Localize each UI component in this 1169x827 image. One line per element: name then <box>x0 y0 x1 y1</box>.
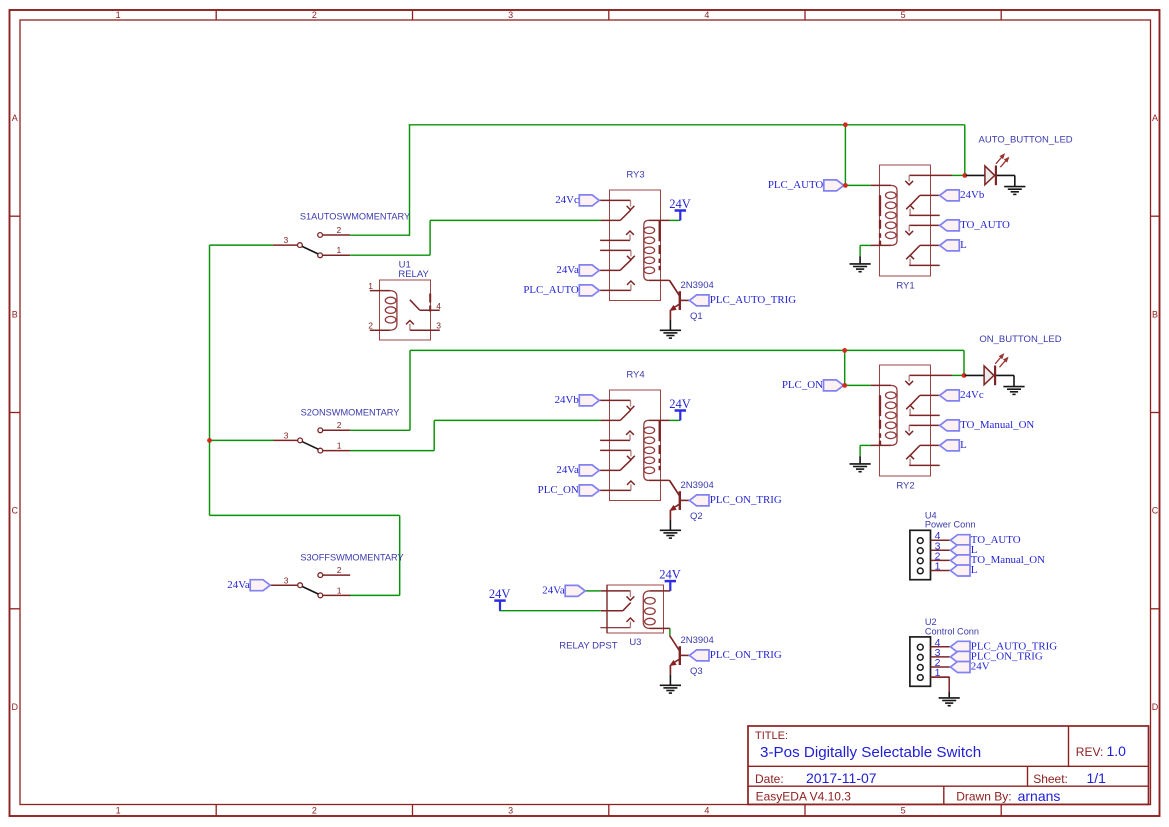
svg-text:Q2: Q2 <box>690 511 703 522</box>
junction ON rail / PLC_ON <box>842 348 847 353</box>
net flag 24Va <box>556 464 599 476</box>
transistor Q3 2N3904 <box>670 635 690 685</box>
svg-text:Date:: Date: <box>755 772 784 786</box>
wire 24V rail top (S1.2 to LED junction) <box>350 125 965 236</box>
svg-text:TITLE:: TITLE: <box>755 730 788 742</box>
net flag L <box>950 564 977 576</box>
wire U3 coil to Q3 collector <box>669 628 671 635</box>
net flag PLC_ON_TRIG <box>950 651 1043 663</box>
LED ON_BUTTON_LED <box>965 354 1014 386</box>
ground at U2 pin 1 <box>939 698 960 706</box>
net flag L <box>940 439 967 451</box>
svg-text:Sheet:: Sheet: <box>1033 772 1068 786</box>
net flag 24Va <box>227 579 270 591</box>
connector U4 Power Conn <box>910 530 950 580</box>
net flag 24Va <box>542 585 585 597</box>
svg-text:2: 2 <box>312 10 317 20</box>
svg-text:S1AUTOSWMOMENTARY: S1AUTOSWMOMENTARY <box>300 212 410 222</box>
net flag 24V <box>950 661 989 673</box>
svg-text:5: 5 <box>901 806 906 816</box>
svg-text:2: 2 <box>312 806 317 816</box>
svg-text:5: 5 <box>901 10 906 20</box>
svg-text:S3OFFSWMOMENTARY: S3OFFSWMOMENTARY <box>300 553 403 563</box>
ground at AUTO_BUTTON_LED <box>1004 187 1025 195</box>
svg-text:2: 2 <box>337 565 342 575</box>
ground at ON_BUTTON_LED <box>1003 387 1024 395</box>
svg-text:arnans: arnans <box>1018 788 1061 804</box>
wire RY2 pin to LED junction <box>952 374 964 376</box>
net flag PLC_ON <box>782 379 844 391</box>
relay RY4 <box>599 390 669 501</box>
svg-text:1/1: 1/1 <box>1087 770 1107 786</box>
net flag TO_AUTO <box>950 534 1020 546</box>
svg-text:TO_AUTO: TO_AUTO <box>960 219 1010 231</box>
svg-text:24V: 24V <box>669 197 691 211</box>
svg-text:24Va: 24Va <box>556 464 579 476</box>
relay RY3 <box>599 190 669 301</box>
wire S1.3 / S2.3 / S3.1 net <box>210 245 400 595</box>
svg-text:24Va: 24Va <box>556 264 579 276</box>
wire 24Va flag to U3 <box>585 590 601 592</box>
net flag PLC_AUTO <box>523 284 599 296</box>
transistor Q2 2N3904 <box>670 480 690 530</box>
svg-text:2N3904: 2N3904 <box>681 480 714 491</box>
wire RY3 coil to 24V <box>670 219 681 221</box>
ground at Q2 emitter <box>660 530 681 538</box>
wire RY3 coil to Q1 collector <box>669 280 679 296</box>
net flag 24Va <box>556 264 599 276</box>
svg-text:L: L <box>971 564 978 576</box>
wire RY1 pin to LED junction <box>952 174 965 176</box>
svg-text:3-Pos Digitally Selectable Swi: 3-Pos Digitally Selectable Switch <box>760 744 981 761</box>
wire ON rail (S2.2 to LED junction) <box>350 350 964 430</box>
svg-text:D: D <box>11 702 18 712</box>
svg-text:AUTO_BUTTON_LED: AUTO_BUTTON_LED <box>979 135 1073 146</box>
svg-text:PLC_AUTO_TRIG: PLC_AUTO_TRIG <box>710 294 796 306</box>
net flag 24Vc <box>555 194 599 206</box>
svg-text:A: A <box>12 113 18 123</box>
svg-text:24V: 24V <box>971 661 990 673</box>
svg-text:2N3904: 2N3904 <box>681 280 714 291</box>
svg-text:1: 1 <box>116 10 121 20</box>
wire stub S3 pin 3 <box>270 584 298 586</box>
junction LED node ON <box>962 373 967 378</box>
svg-text:24Vb: 24Vb <box>555 394 580 406</box>
svg-text:PLC_AUTO: PLC_AUTO <box>523 284 579 296</box>
switch S3OFFSWMOMENTARY <box>284 565 350 598</box>
svg-text:Power Conn: Power Conn <box>925 520 976 530</box>
net flag PLC_ON_TRIG <box>689 649 782 661</box>
svg-text:PLC_AUTO: PLC_AUTO <box>768 179 824 191</box>
svg-text:2N3904: 2N3904 <box>681 635 714 646</box>
svg-text:B: B <box>1152 309 1158 319</box>
wire U3 24V to coil common <box>499 610 601 612</box>
wire U3 pin to 24V (top) <box>664 590 671 592</box>
svg-text:PLC_ON_TRIG: PLC_ON_TRIG <box>710 494 782 506</box>
ground at RY1 coil <box>850 264 871 272</box>
svg-text:PLC_ON: PLC_ON <box>538 484 579 496</box>
net flag PLC_ON_TRIG <box>689 494 782 506</box>
svg-text:A: A <box>1152 113 1158 123</box>
svg-text:3: 3 <box>436 321 441 331</box>
wire RY4 coil to 24V <box>670 419 681 421</box>
frame column labels <box>116 10 906 816</box>
wire S2.1 to RY4 common <box>350 420 601 450</box>
wire stub S2 pin 3 <box>273 439 297 441</box>
switch S1AUTOSWMOMENTARY <box>284 225 350 258</box>
svg-text:U3: U3 <box>629 637 641 648</box>
LED AUTO_BUTTON_LED <box>966 154 1015 186</box>
svg-text:C: C <box>11 506 18 516</box>
svg-text:L: L <box>960 239 967 251</box>
svg-text:24Vc: 24Vc <box>960 389 984 401</box>
junction LED node AUTO <box>962 173 967 178</box>
svg-text:Drawn By:: Drawn By: <box>956 790 1011 804</box>
net flag 24Vc <box>940 389 984 401</box>
wire RY4 coil to Q2 collector <box>669 480 679 496</box>
transistor Q1 2N3904 <box>670 280 690 330</box>
svg-text:RY1: RY1 <box>896 281 914 292</box>
relay U1 RELAY <box>368 280 441 340</box>
svg-text:RY3: RY3 <box>626 170 644 181</box>
svg-text:24V: 24V <box>489 587 511 601</box>
net flag L <box>950 544 977 556</box>
svg-text:RY4: RY4 <box>626 370 644 381</box>
wire RY2 coil to ground <box>860 445 871 456</box>
net flag 24Vb <box>940 189 985 201</box>
svg-text:REV:: REV: <box>1076 745 1104 759</box>
wire RY1 coil ground stem <box>859 256 861 263</box>
svg-text:1: 1 <box>337 245 342 255</box>
net flag TO_Manual_ON <box>940 419 1035 431</box>
frame row labels <box>11 113 1158 712</box>
svg-text:TO_AUTO: TO_AUTO <box>971 534 1021 546</box>
svg-text:PLC_ON_TRIG: PLC_ON_TRIG <box>710 649 782 661</box>
connector U2 Control Conn <box>910 637 950 687</box>
svg-text:2: 2 <box>337 420 342 430</box>
ground at Q1 emitter <box>660 330 681 338</box>
svg-text:1: 1 <box>368 281 373 291</box>
svg-text:Control Conn: Control Conn <box>925 626 979 636</box>
svg-text:24V: 24V <box>669 397 691 411</box>
junction PLC_ON node <box>842 383 847 388</box>
svg-text:ON_BUTTON_LED: ON_BUTTON_LED <box>979 334 1061 345</box>
svg-text:B: B <box>12 309 18 319</box>
svg-text:1.0: 1.0 <box>1107 743 1127 759</box>
net flag PLC_ON <box>538 484 600 496</box>
relay RY1 <box>871 165 952 276</box>
svg-text:RELAY DPST: RELAY DPST <box>559 641 617 652</box>
svg-text:RY2: RY2 <box>896 481 914 492</box>
power flag 24V <box>669 397 691 421</box>
net flag L <box>940 239 967 251</box>
svg-text:4: 4 <box>704 806 709 816</box>
svg-text:24Va: 24Va <box>542 585 565 597</box>
svg-text:4: 4 <box>436 301 441 311</box>
svg-text:2017-11-07: 2017-11-07 <box>806 770 877 786</box>
wire stub S1 pin 3 <box>273 244 298 246</box>
wire U3 to Q3 collector <box>664 627 670 629</box>
wire RY1 coil to ground <box>860 245 871 256</box>
relay U3 RELAY DPST <box>600 585 663 633</box>
svg-text:D: D <box>1152 702 1159 712</box>
wire rail to PLC_AUTO node <box>845 125 870 186</box>
svg-text:3: 3 <box>284 575 289 585</box>
switch S2ONSWMOMENTARY <box>284 420 350 453</box>
svg-text:TO_Manual_ON: TO_Manual_ON <box>960 419 1034 431</box>
wire rail to PLC_ON node <box>845 350 871 385</box>
svg-text:24Va: 24Va <box>227 579 250 591</box>
net flag 24Vb <box>555 394 600 406</box>
svg-text:1: 1 <box>337 585 342 595</box>
net flag PLC_AUTO <box>768 179 844 191</box>
svg-text:EasyEDA V4.10.3: EasyEDA V4.10.3 <box>756 790 852 804</box>
net flag PLC_AUTO_TRIG <box>950 640 1057 652</box>
svg-text:TO_Manual_ON: TO_Manual_ON <box>971 554 1045 566</box>
svg-text:3: 3 <box>508 10 513 20</box>
junction S3 net at S2.3 <box>207 438 212 443</box>
svg-text:3: 3 <box>284 431 289 441</box>
svg-text:C: C <box>1152 506 1159 516</box>
svg-text:1: 1 <box>337 441 342 451</box>
net flag TO_AUTO <box>940 219 1010 231</box>
wire S1.1 to RY3 common <box>350 220 601 255</box>
svg-text:RELAY: RELAY <box>398 269 429 280</box>
ground at RY2 coil <box>850 464 871 472</box>
net flag PLC_AUTO_TRIG <box>689 294 796 306</box>
relay RY2 <box>871 365 952 476</box>
net flag TO_Manual_ON <box>950 554 1045 566</box>
svg-text:1: 1 <box>116 806 121 816</box>
svg-text:24Vc: 24Vc <box>555 194 579 206</box>
wire U2 pin1 to ground <box>931 677 950 697</box>
title block texts <box>755 730 1126 804</box>
svg-text:24V: 24V <box>659 568 681 582</box>
junction PLC_AUTO node <box>843 183 848 188</box>
power flag 24V <box>659 568 681 591</box>
power flag 24V <box>669 197 691 221</box>
svg-text:3: 3 <box>284 235 289 245</box>
svg-text:24Vb: 24Vb <box>960 189 985 201</box>
power flag 24V <box>489 587 511 611</box>
svg-text:4: 4 <box>704 10 709 20</box>
svg-text:PLC_ON: PLC_ON <box>782 379 823 391</box>
junction 24V rail / PLC_AUTO <box>843 122 848 127</box>
svg-text:2: 2 <box>337 225 342 235</box>
svg-text:Q1: Q1 <box>690 311 703 322</box>
svg-text:3: 3 <box>508 806 513 816</box>
svg-text:1: 1 <box>935 561 941 573</box>
svg-text:L: L <box>960 439 967 451</box>
wire RY2 coil ground stem <box>859 456 861 463</box>
svg-text:2: 2 <box>368 320 373 330</box>
wire junction branch to S2.3 <box>210 439 274 441</box>
svg-text:S2ONSWMOMENTARY: S2ONSWMOMENTARY <box>301 408 400 418</box>
ground at Q3 emitter <box>660 685 681 693</box>
svg-text:Q3: Q3 <box>690 666 703 677</box>
title block <box>748 726 1149 804</box>
